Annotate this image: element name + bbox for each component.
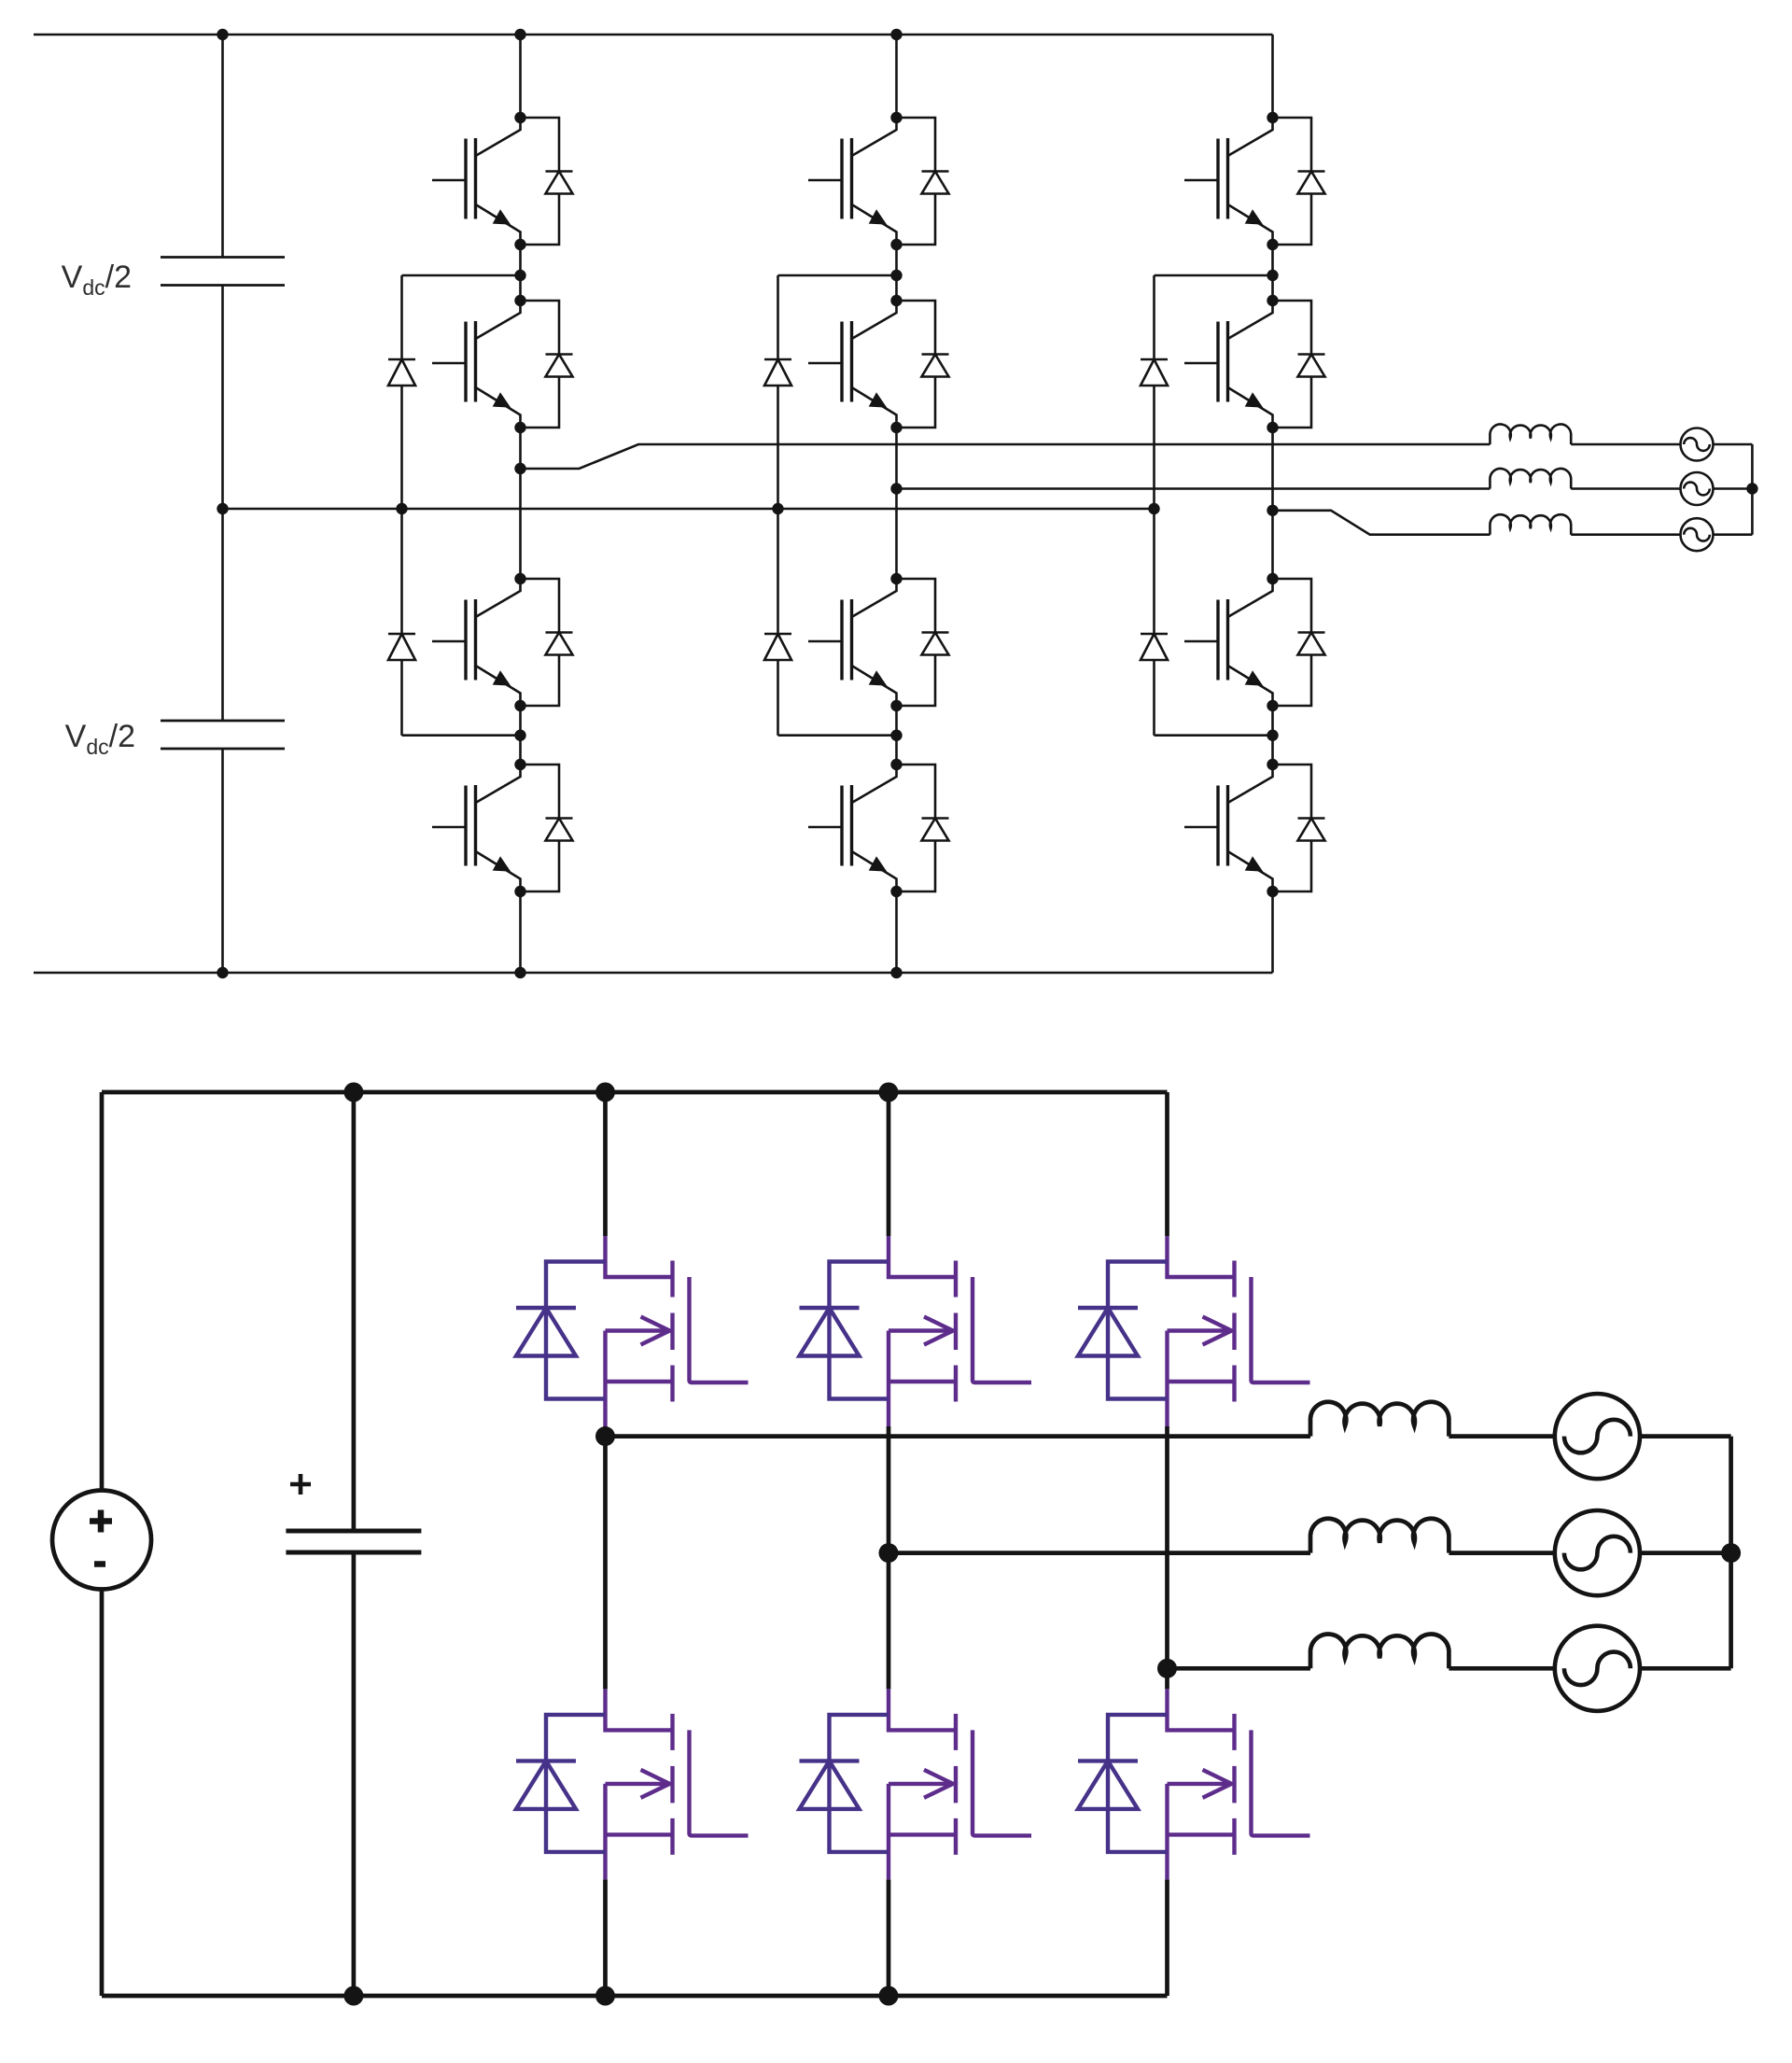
junction (960.5,126) xyxy=(890,112,902,123)
wire: phase B clamp bottom link xyxy=(778,734,897,737)
junction (378.9,1170) xyxy=(343,1083,363,1102)
junction (952,2138) xyxy=(879,1986,899,2006)
wire: phase A output xyxy=(521,444,1491,469)
MOSFET MB2 with body diode (phase B low side) xyxy=(800,1689,1032,1879)
IGBT QC1 with freewheel diode (phase C, position 1) xyxy=(1184,118,1325,245)
clamp diode DC6 (lower) xyxy=(1141,509,1168,736)
wire: DC- rail (bottom circuit) xyxy=(102,1994,1168,1999)
capacitor C2 (Vdc/2 lower) xyxy=(161,721,285,749)
MOSFET MA1 with body diode (phase A high side) xyxy=(516,1236,749,1426)
wire: phase A leg vertical xyxy=(519,35,522,973)
wire: DC+ rail (bottom circuit) xyxy=(102,1090,1168,1095)
inductor La2 (bottom circuit) xyxy=(1310,1402,1449,1437)
junction (557.5,620) xyxy=(514,573,525,584)
junction (960.5,322) xyxy=(890,295,902,306)
wire: grid neutral bus (bottom) xyxy=(1729,1437,1733,1669)
IGBT QB2 with freewheel diode (phase B, position 2) xyxy=(808,301,949,428)
junction (1363.5,262) xyxy=(1267,239,1278,250)
junction (1363.5,787.7) xyxy=(1267,730,1278,741)
wire: phase A to source xyxy=(1571,443,1752,446)
AC source Vc2 (bottom circuit) xyxy=(1555,1626,1640,1711)
wire: DC- bottom rail xyxy=(34,972,1273,975)
IGBT QC2 with freewheel diode (phase C, position 2) xyxy=(1184,301,1325,428)
AC source Vc xyxy=(1681,518,1714,551)
junction (1363.5,322) xyxy=(1267,295,1278,306)
label + (dc link polarity) xyxy=(290,1474,311,1495)
IGBT QA3 with freewheel diode (phase A, position 3) xyxy=(432,579,573,706)
junction (557.5,458) xyxy=(514,422,525,433)
wire: leg C vertical (bottom circuit) xyxy=(1165,1092,1169,1996)
AC source Va xyxy=(1681,428,1714,461)
junction (648.5,1538.6) xyxy=(595,1426,615,1446)
AC source Va2 (bottom circuit) xyxy=(1555,1394,1640,1479)
wire: phase C clamp bottom link xyxy=(1155,734,1273,737)
capacitor C1 (Vdc/2 upper) xyxy=(161,258,285,286)
inductor Lb2 (bottom circuit) xyxy=(1310,1519,1449,1553)
DC voltage source V1 xyxy=(52,1491,151,1590)
clamp diode DB5 (upper) xyxy=(764,275,791,509)
MOSFET MB1 with body diode (phase B high side) xyxy=(800,1236,1032,1426)
wire: phase B output (bottom) xyxy=(889,1551,1731,1555)
junction (557.5,502) xyxy=(514,463,525,474)
junction (1363.5,756) xyxy=(1267,700,1278,711)
junction (960.5,756) xyxy=(890,700,902,711)
junction (960.5,620) xyxy=(890,573,902,584)
wire: phase C to source xyxy=(1571,533,1752,536)
clamp diode DC5 (upper) xyxy=(1141,275,1168,509)
junction (960.5,787.7) xyxy=(890,730,902,741)
wire: phase C output xyxy=(1273,511,1491,535)
junction (557.5,1042) xyxy=(514,967,525,978)
junction (378.9,2138) xyxy=(343,1986,363,2006)
wire: phase B clamp top link xyxy=(778,274,897,277)
wire: capacitor branch (bottom) xyxy=(352,1092,357,1996)
MOSFET MC2 with body diode (phase C low side) xyxy=(1078,1689,1310,1879)
AC source Vb2 (bottom circuit) xyxy=(1555,1510,1640,1595)
junction (557.5,787.7) xyxy=(514,730,525,741)
junction (960.5,37) xyxy=(890,29,902,40)
IGBT QB1 with freewheel diode (phase B, position 1) xyxy=(808,118,949,245)
junction (1363.5,819) xyxy=(1267,759,1278,770)
wire: phase A clamp top link xyxy=(402,274,521,277)
junction (1854.6,1663.6) xyxy=(1721,1543,1741,1563)
IGBT QA2 with freewheel diode (phase A, position 2) xyxy=(432,301,573,428)
IGBT QB3 with freewheel diode (phase B, position 3) xyxy=(808,579,949,706)
IGBT QB4 with freewheel diode (phase B, position 4) xyxy=(808,765,949,891)
junction (1250.5,1787.3) xyxy=(1157,1659,1177,1678)
wire: phase B to source xyxy=(1571,487,1752,490)
wire: phase A output (bottom) xyxy=(606,1434,1731,1438)
junction (238.5,1042) xyxy=(217,967,228,978)
junction (1363.5,295) xyxy=(1267,270,1278,281)
junction (960.5,262) xyxy=(890,239,902,250)
MOSFET MA2 with body diode (phase A low side) xyxy=(516,1689,749,1879)
wire: phase C output (bottom) xyxy=(1168,1666,1731,1671)
wire: source branch xyxy=(100,1092,105,1996)
wire: DC+ top rail xyxy=(34,34,1273,36)
clamp diode DB6 (lower) xyxy=(764,509,791,736)
wire: phase B leg vertical xyxy=(895,35,898,973)
junction (557.5,126) xyxy=(514,112,525,123)
junction (557.5,322) xyxy=(514,295,525,306)
junction (960.5,819) xyxy=(890,759,902,770)
junction (557.5,819) xyxy=(514,759,525,770)
junction (557.5,756) xyxy=(514,700,525,711)
junction (557.5,955) xyxy=(514,886,525,897)
junction (1363.5,126) xyxy=(1267,112,1278,123)
junction (557.5,295) xyxy=(514,270,525,281)
wire: grid neutral bus xyxy=(1751,444,1754,535)
AC source Vb xyxy=(1681,472,1714,505)
inductor Lb xyxy=(1490,469,1571,489)
junction (960.5,295) xyxy=(890,270,902,281)
junction (648.5,1170) xyxy=(595,1083,615,1102)
IGBT QC3 with freewheel diode (phase C, position 3) xyxy=(1184,579,1325,706)
junction (648.5,2138) xyxy=(595,1986,615,2006)
junction (1236.5,545) xyxy=(1148,503,1159,514)
junction (960.5,1042) xyxy=(890,967,902,978)
wire: leg B vertical (bottom circuit) xyxy=(887,1092,891,1996)
junction (1363.5,955) xyxy=(1267,886,1278,897)
junction (1363.5,546.8) xyxy=(1267,505,1278,516)
junction (1363.5,620) xyxy=(1267,573,1278,584)
junction (952,1663.6) xyxy=(879,1543,899,1563)
wire: phase B output xyxy=(897,487,1491,490)
junction (960.5,955) xyxy=(890,886,902,897)
wire: leg A vertical (bottom circuit) xyxy=(603,1092,608,1996)
junction (1363.5,458) xyxy=(1267,422,1278,433)
wire: phase A clamp bottom link xyxy=(402,734,521,737)
inductor Lc xyxy=(1490,514,1571,535)
junction (557.5,262) xyxy=(514,239,525,250)
wire: phase C leg vertical xyxy=(1271,35,1274,973)
inductor Lc2 (bottom circuit) xyxy=(1310,1635,1449,1669)
junction (952,1170) xyxy=(879,1083,899,1102)
wire: capacitor branch xyxy=(221,35,224,973)
MOSFET MC1 with body diode (phase C high side) xyxy=(1078,1236,1310,1426)
junction (1877.4,523.5) xyxy=(1746,483,1757,494)
IGBT QA4 with freewheel diode (phase A, position 4) xyxy=(432,765,573,891)
junction (430.5,545) xyxy=(396,503,407,514)
capacitor C3 (DC link) xyxy=(286,1531,421,1552)
wire: neutral mid rail xyxy=(223,508,1155,511)
junction (960.5,523.5) xyxy=(890,483,902,494)
clamp diode DA6 (lower) xyxy=(388,509,415,736)
junction (960.5,458) xyxy=(890,422,902,433)
IGBT QA1 with freewheel diode (phase A, position 1) xyxy=(432,118,573,245)
IGBT QC4 with freewheel diode (phase C, position 4) xyxy=(1184,765,1325,891)
wire: phase C clamp top link xyxy=(1155,274,1273,277)
inductor La xyxy=(1490,424,1571,444)
junction (557.5,37) xyxy=(514,29,525,40)
junction (238.5,37) xyxy=(217,29,228,40)
junction (833.5,545) xyxy=(772,503,783,514)
junction (238.5,545) xyxy=(217,503,228,514)
clamp diode DA5 (upper) xyxy=(388,275,415,509)
